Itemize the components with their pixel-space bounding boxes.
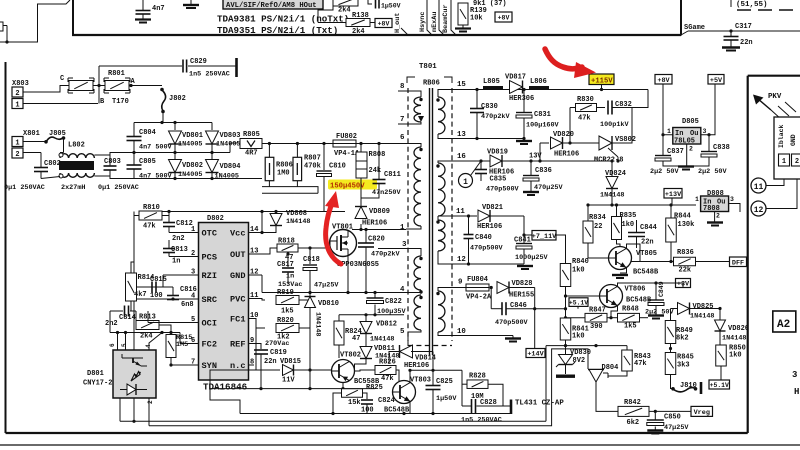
svg-text:SPP03N60S5: SPP03N60S5 — [337, 261, 379, 269]
pin4 wire — [137, 298, 199, 300]
wire — [179, 333, 181, 344]
svg-text:5: 5 — [400, 328, 405, 336]
junction — [210, 177, 213, 180]
red arrow to +115V — [545, 49, 596, 78]
svg-text:2: 2 — [147, 400, 154, 404]
junction C317 — [729, 29, 732, 32]
svg-text:OUT: OUT — [230, 250, 245, 260]
wire — [133, 212, 135, 422]
capacitor 1u50V — [376, 0, 380, 9]
wire — [374, 293, 376, 298]
svg-text:1k0: 1k0 — [622, 221, 635, 229]
svg-text:R835: R835 — [620, 212, 637, 220]
svg-text:1N4148: 1N4148 — [370, 336, 394, 344]
svg-text:15k: 15k — [348, 399, 361, 407]
ground — [711, 225, 719, 227]
pin15 wire — [438, 90, 467, 98]
junction — [490, 286, 493, 289]
capacitor C820 — [358, 243, 374, 247]
wire — [7, 0, 70, 42]
pin1 wire — [406, 226, 421, 229]
svg-text:R848: R848 — [622, 306, 639, 314]
svg-text:1n5 250VAC: 1n5 250VAC — [461, 417, 502, 425]
junction — [308, 246, 311, 249]
svg-text:0µ1 250VAC: 0µ1 250VAC — [98, 184, 139, 192]
VT803 collector — [409, 370, 411, 383]
svg-text:6n8: 6n8 — [181, 301, 194, 309]
wire — [109, 311, 111, 333]
junction — [373, 313, 376, 316]
VD820 wire — [540, 142, 549, 144]
L802 bottom winding — [60, 173, 94, 177]
gate wire — [329, 241, 331, 248]
terminal — [510, 400, 513, 415]
junction — [274, 210, 277, 213]
svg-text:100p1kV: 100p1kV — [600, 121, 629, 129]
wire — [671, 375, 674, 389]
inductor L806 — [529, 86, 549, 89]
wire — [361, 178, 379, 198]
resistor R835 — [612, 217, 622, 240]
source rail — [262, 292, 406, 294]
C830 branch — [476, 90, 478, 109]
svg-text:6: 6 — [109, 343, 116, 347]
junction — [260, 231, 263, 234]
svg-text:+5V: +5V — [710, 77, 723, 85]
pin10 FC1 wire — [249, 319, 266, 329]
svg-text:1k0: 1k0 — [572, 267, 585, 275]
svg-text:SRC: SRC — [202, 295, 217, 305]
wire — [147, 311, 149, 323]
VT805 emitter — [620, 268, 627, 274]
wire — [636, 237, 638, 248]
svg-text:270Vac: 270Vac — [265, 340, 289, 348]
wire — [133, 123, 135, 137]
junction — [124, 331, 127, 334]
svg-text:D804: D804 — [602, 364, 619, 372]
wire — [365, 333, 367, 347]
wire — [135, 311, 137, 320]
X803 pin 1 — [12, 99, 23, 109]
crowbar feed — [632, 90, 648, 108]
X801 pin 1 — [12, 137, 23, 147]
svg-text:PVC: PVC — [230, 295, 245, 305]
wire — [287, 252, 289, 267]
svg-text:+8V: +8V — [657, 77, 670, 85]
dashed line — [737, 9, 800, 11]
+8V box — [375, 19, 392, 28]
svg-text:HER106: HER106 — [404, 362, 429, 370]
capacitor C844 — [628, 233, 645, 237]
core dashed left — [407, 88, 409, 341]
ground — [455, 27, 471, 29]
MOSFET VT801 — [330, 230, 357, 257]
svg-text:1n5 250VAC: 1n5 250VAC — [189, 71, 230, 79]
pin diagonal — [401, 28, 408, 35]
svg-text:C830: C830 — [481, 103, 498, 111]
svg-text:C811: C811 — [384, 171, 401, 179]
pin12 GND wire — [249, 274, 263, 276]
DFF diode column — [665, 303, 749, 395]
terminal dot — [59, 153, 63, 157]
wire — [476, 113, 478, 139]
capacitor lead — [142, 0, 144, 10]
wire — [565, 365, 567, 375]
ground — [523, 191, 539, 193]
VD810 column — [309, 306, 311, 389]
+5.1V box — [569, 298, 588, 307]
svg-text:153Vac: 153Vac — [278, 281, 302, 289]
resistor R842 — [618, 406, 649, 416]
VD815 wire — [256, 369, 280, 371]
connector box — [774, 117, 800, 179]
svg-text:11V: 11V — [282, 377, 295, 385]
wire — [393, 370, 400, 392]
inductor L805 — [483, 86, 503, 89]
top-left wire — [0, 26, 7, 43]
wire — [720, 366, 722, 380]
junction — [167, 210, 170, 213]
VD808 branch — [275, 212, 277, 215]
resistor R818 — [277, 244, 298, 252]
terminal dot — [59, 174, 63, 178]
svg-text:VD802: VD802 — [182, 162, 203, 170]
J805 right — [62, 136, 66, 140]
connector stub — [0, 22, 3, 31]
red annotation arrows — [325, 49, 596, 264]
wire — [636, 220, 638, 232]
wire — [94, 176, 134, 179]
wire — [41, 177, 60, 179]
svg-text:R825: R825 — [366, 384, 383, 392]
resistor R845 — [665, 353, 676, 375]
resistor R813 — [136, 321, 159, 330]
wire — [461, 370, 463, 406]
svg-text:470p2kV: 470p2kV — [371, 251, 400, 259]
wire — [689, 308, 721, 310]
wire — [365, 315, 367, 322]
svg-text:Vcc: Vcc — [230, 229, 245, 239]
wire — [168, 227, 170, 233]
svg-text:2: 2 — [716, 213, 720, 220]
svg-text:1: 1 — [15, 102, 19, 110]
capacitor C804 — [127, 137, 142, 141]
svg-text:16: 16 — [457, 153, 466, 161]
regulator D808 7808 — [701, 196, 729, 212]
pin box 2 — [792, 154, 800, 166]
svg-text:CNY17-2: CNY17-2 — [83, 380, 112, 388]
svg-text:12: 12 — [457, 256, 466, 264]
capacitor C818 — [303, 265, 317, 271]
red arrow to C810 — [325, 191, 341, 264]
svg-text:C802: C802 — [44, 160, 61, 168]
wire — [534, 288, 536, 349]
junction — [173, 151, 176, 154]
junction — [600, 88, 603, 91]
pin 12 stub — [249, 274, 255, 276]
SGame wire — [688, 30, 800, 32]
svg-text:2µ2 50V: 2µ2 50V — [698, 168, 727, 176]
wire — [701, 84, 715, 135]
regulators — [586, 75, 740, 226]
svg-text:TL431 CZ-AP: TL431 CZ-AP — [515, 400, 564, 408]
capacitor C828 — [472, 399, 476, 413]
wire — [655, 283, 657, 300]
wire — [462, 383, 467, 385]
wire — [287, 273, 289, 285]
svg-text:2k4: 2k4 — [140, 333, 153, 341]
svg-text:C814: C814 — [119, 314, 136, 322]
svg-text:390: 390 — [590, 323, 603, 331]
svg-text:VD830: VD830 — [570, 349, 591, 357]
svg-text:1k0: 1k0 — [572, 333, 585, 341]
pin 5 stub — [193, 322, 199, 324]
junction — [308, 387, 311, 390]
svg-text:VD812: VD812 — [376, 321, 397, 329]
svg-text:C822: C822 — [385, 298, 402, 306]
C829 wire — [99, 65, 182, 67]
wire — [134, 215, 139, 217]
svg-text:VD808: VD808 — [286, 210, 307, 218]
junction — [359, 142, 362, 145]
wire — [40, 153, 42, 168]
ground — [527, 194, 535, 196]
capacitor C317 — [724, 37, 739, 41]
capacitor 4n7 — [136, 11, 151, 15]
wire — [133, 141, 135, 153]
wire — [730, 41, 732, 48]
svg-text:8: 8 — [400, 83, 405, 91]
winding dot — [436, 220, 439, 223]
svg-text:8k2: 8k2 — [676, 335, 689, 343]
junction — [286, 252, 289, 255]
transistor VT806 BC548B — [600, 285, 623, 308]
wire — [365, 230, 367, 243]
svg-text:C317: C317 — [735, 23, 752, 31]
pin 3 stub — [193, 274, 199, 276]
pin 1 stub — [193, 232, 199, 234]
resistor R807 — [293, 157, 302, 180]
feedback wire A bottom — [120, 420, 546, 422]
resistor R810 — [139, 211, 162, 220]
wire — [508, 287, 535, 289]
svg-text:L802: L802 — [68, 142, 85, 150]
pin BeamCur wire — [451, 0, 456, 35]
+8V box — [655, 75, 672, 85]
wire — [323, 177, 325, 212]
winding dot — [419, 148, 422, 151]
capacitor C812 — [163, 223, 175, 227]
svg-text:47k: 47k — [381, 375, 394, 383]
pin 13 stub — [249, 253, 255, 255]
junction — [331, 412, 334, 415]
pin 6 stub — [193, 343, 199, 345]
svg-text:1N4148: 1N4148 — [690, 313, 714, 321]
wire — [686, 144, 688, 166]
junction — [260, 210, 263, 213]
svg-text:47: 47 — [352, 335, 360, 343]
svg-text:C815: C815 — [150, 276, 167, 284]
junction — [169, 331, 172, 334]
wire — [506, 308, 535, 310]
svg-text:11: 11 — [456, 208, 465, 216]
terminal — [235, 58, 238, 77]
svg-text:Iblack: Iblack — [778, 124, 785, 148]
wire — [109, 155, 111, 166]
svg-text:VD826: VD826 — [728, 325, 749, 333]
R843 column — [626, 346, 628, 350]
wire — [670, 344, 672, 353]
junction — [431, 369, 434, 372]
svg-text:+115V: +115V — [591, 78, 613, 86]
svg-text:C819: C819 — [270, 349, 287, 357]
junction — [467, 214, 470, 217]
pin10 down wire — [255, 328, 257, 370]
junction — [533, 307, 536, 310]
capacitor C841 — [516, 244, 532, 250]
svg-text:L805: L805 — [483, 78, 500, 86]
junction — [609, 316, 612, 319]
junction — [522, 233, 525, 236]
ground — [651, 433, 659, 435]
junction — [475, 88, 478, 91]
junction — [169, 363, 172, 366]
wire — [612, 108, 632, 144]
top block left border — [72, 0, 74, 35]
bridge bottom rail — [134, 178, 262, 180]
opto pin2 wire — [148, 398, 150, 426]
diode VD815 — [283, 365, 294, 376]
wire — [654, 411, 656, 419]
J810 right — [694, 387, 698, 391]
svg-text:FC2: FC2 — [202, 340, 217, 350]
capacitor C849 — [648, 300, 664, 306]
wire — [333, 393, 342, 414]
resistor R841 — [560, 318, 571, 340]
svg-text:1k5: 1k5 — [624, 323, 637, 331]
junction — [171, 297, 174, 300]
svg-text:R840: R840 — [572, 258, 589, 266]
svg-text:1N4005: 1N4005 — [216, 141, 240, 149]
bottom separator — [0, 444, 800, 446]
svg-text:R805: R805 — [243, 131, 260, 139]
svg-text:VD809: VD809 — [369, 208, 390, 216]
wire — [523, 139, 525, 141]
capacitor C814 — [125, 306, 129, 317]
diode VD804 — [206, 160, 219, 173]
diode VD809 — [355, 207, 367, 219]
svg-text:2: 2 — [795, 158, 799, 166]
wire — [719, 331, 721, 345]
pin 7 stub — [193, 364, 199, 366]
wire — [607, 376, 609, 378]
junction — [661, 133, 664, 136]
pin 9 stub — [249, 343, 255, 345]
svg-text:1k5: 1k5 — [281, 308, 294, 316]
svg-text:1N4005: 1N4005 — [178, 171, 202, 179]
source wire — [347, 256, 349, 293]
pin10 wire — [438, 332, 513, 336]
wire — [338, 345, 340, 358]
svg-text:VD804: VD804 — [220, 163, 241, 171]
capacitor C829 — [183, 60, 187, 73]
wire — [488, 384, 503, 406]
core line 1 — [429, 88, 431, 355]
wire — [172, 287, 174, 295]
main border right — [747, 76, 749, 433]
diode VD820 — [551, 137, 563, 149]
+7_11V box — [532, 231, 557, 241]
wire — [172, 299, 174, 300]
svg-text:1n: 1n — [286, 273, 294, 281]
ground — [722, 46, 740, 48]
L802 core — [59, 161, 94, 170]
capacitor C825 — [426, 386, 441, 390]
svg-text:SGame: SGame — [684, 24, 705, 32]
optocoupler body — [113, 350, 156, 398]
svg-text:1000µ25V: 1000µ25V — [515, 254, 549, 262]
svg-text:7: 7 — [400, 116, 404, 124]
svg-text:R830: R830 — [577, 96, 594, 104]
wire — [309, 293, 311, 297]
wire — [360, 202, 362, 207]
top chassis block — [0, 0, 800, 51]
junction — [529, 159, 532, 162]
svg-text:470p2kV: 470p2kV — [481, 113, 510, 121]
pin7 wire — [171, 364, 199, 366]
controller section — [105, 204, 345, 421]
pin3 wire — [378, 249, 421, 257]
wire — [363, 393, 368, 399]
svg-text:C840: C840 — [475, 234, 492, 242]
svg-text:VP4-2A: VP4-2A — [466, 294, 492, 302]
main border bottom — [6, 432, 748, 434]
+8V box — [495, 12, 512, 22]
resistor R824 — [334, 321, 344, 345]
wire — [539, 143, 541, 161]
feedback wire B — [149, 349, 588, 426]
svg-text:4n7 500V: 4n7 500V — [139, 144, 173, 152]
wire — [130, 301, 132, 311]
svg-text:470p500V: 470p500V — [470, 245, 504, 253]
resistor R836 — [674, 257, 696, 266]
svg-text:1k0: 1k0 — [729, 352, 742, 360]
resistor R828 — [467, 380, 488, 389]
wire — [298, 241, 330, 248]
13V secondary net — [459, 149, 627, 206]
junction — [610, 203, 613, 206]
opto LED — [120, 372, 147, 396]
C840 branch — [468, 216, 470, 234]
svg-text:150µ450V: 150µ450V — [330, 183, 365, 191]
junction — [259, 387, 262, 390]
junction — [173, 177, 176, 180]
wire — [663, 84, 673, 135]
ground bar — [556, 375, 575, 378]
wire — [318, 22, 346, 24]
svg-text:2x27mH: 2x27mH — [61, 184, 85, 192]
wire — [162, 215, 169, 217]
svg-text:HER106: HER106 — [477, 223, 502, 231]
resistor R840 — [560, 264, 571, 287]
ground — [186, 7, 196, 9]
bracket left — [407, 77, 415, 83]
svg-text:C831: C831 — [534, 111, 551, 119]
varistor R801 — [105, 81, 129, 91]
L802 top winding — [60, 154, 94, 158]
transistor VT805 BC548B — [609, 247, 632, 270]
aux winding 4-5 — [414, 295, 421, 330]
